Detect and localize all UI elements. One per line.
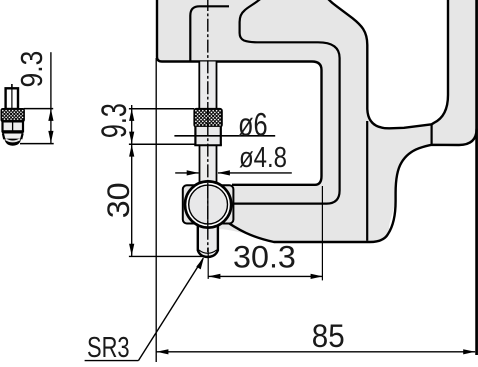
knurled nut (194, 109, 222, 127)
svg-text:30.3: 30.3 (233, 238, 296, 274)
frame outline: slot (top opening) (327, 0, 449, 128)
dimension 85 (frame width) (156, 58, 475, 362)
ball holder block (183, 185, 234, 223)
svg-text:85: 85 (312, 317, 345, 354)
frame outline: arm bottom, neck, column bottom, right corner (222, 129, 477, 242)
svg-text:30: 30 (101, 182, 136, 218)
frame body fill (157, 0, 477, 242)
lower rod (between collar and ball) (200, 145, 217, 185)
collar below knurl (194, 127, 222, 145)
small contact point: stem (6, 88, 18, 109)
spindle centerline (207, 0, 209, 252)
dimension 9.3 (small contact point) (15, 51, 54, 144)
tick edge below slot (431, 124, 433, 144)
step contour left (boss) (190, 6, 229, 61)
label SR3 with leader (85, 257, 204, 364)
frame outline: top-left block, cutout (157, 0, 322, 185)
svg-text:9.3: 9.3 (15, 51, 49, 88)
frame right edge / 85 extension (475, 0, 478, 355)
dimension 30 (spindle length) (101, 145, 203, 257)
dimension label ø4.8 (175, 142, 292, 176)
dimension 30.3 (throat) (208, 186, 322, 280)
small contact point: dome tip (4, 139, 21, 146)
face line below slot (366, 121, 368, 241)
contact ball outer (185, 181, 231, 227)
small contact point: pin (11, 84, 13, 89)
svg-text:SR3: SR3 (87, 332, 130, 364)
small contact point: body (3, 121, 24, 131)
dimension 9.3 (spindle) (95, 103, 195, 256)
svg-text:9.3: 9.3 (95, 103, 134, 138)
svg-text:ø4.8: ø4.8 (239, 142, 287, 174)
small contact point: tip cone (3, 134, 23, 139)
step contour center (raised face) (232, 0, 340, 204)
svg-text:ø6: ø6 (238, 106, 268, 143)
spindle upper rod (199, 62, 216, 109)
dimension label ø6 (174, 106, 275, 143)
small contact point: knurl (1, 109, 24, 122)
contact ball inner (189, 185, 228, 224)
spindle tip below ball (198, 224, 218, 257)
